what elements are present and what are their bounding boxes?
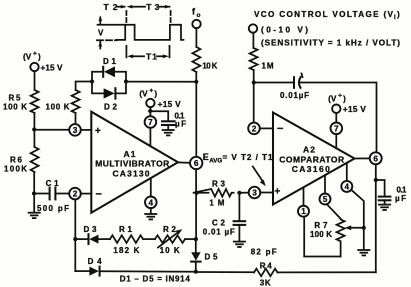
junction R5/R6 pin3 branch — [32, 127, 36, 131]
waveform V low-level reference dashes — [97, 39, 117, 41]
diode D2 — [104, 88, 116, 98]
wire D5 junction to R4 — [196, 271, 254, 273]
wire R6 to ground — [33, 172, 35, 212]
pin 6 A1 — [190, 157, 202, 169]
capacitor C1 — [50, 188, 56, 200]
dashed timing line left — [125, 11, 127, 24]
svg-text:100 K: 100 K — [310, 230, 332, 239]
wire R5 to R6 — [33, 113, 35, 147]
svg-text:−: − — [277, 123, 283, 135]
svg-text:): ) — [154, 90, 157, 99]
wire pin2 to A1 — [81, 193, 92, 195]
pin 4 A1 — [145, 197, 157, 209]
junction wiper rail — [362, 226, 366, 230]
pin 1 A2 — [298, 206, 309, 217]
svg-text:5: 5 — [323, 194, 328, 204]
wire pin4 to wiper rail — [351, 190, 364, 228]
svg-text:4: 4 — [344, 181, 349, 191]
ground left rail — [28, 213, 41, 218]
V amplitude top arrow — [99, 16, 103, 25]
terminal +15V A1 — [146, 99, 154, 107]
diode D4 — [89, 267, 99, 276]
svg-text:7: 7 — [148, 117, 153, 127]
ground A1 pin4 — [144, 214, 157, 219]
capacitor 0.1uF output — [379, 197, 391, 205]
pin 2 A1 — [69, 188, 81, 200]
wire pin6 A2 down right rail to bottom — [375, 164, 377, 272]
junction pin7 bypass — [148, 109, 152, 113]
wire terminal to pin7 A2 — [335, 113, 337, 123]
svg-text:= V T2 / T1: = V T2 / T1 — [223, 153, 273, 162]
wire pin5 A2 up to edge — [324, 176, 326, 194]
wire junction to bypass cap — [150, 111, 168, 120]
pin 4 A2 — [341, 181, 352, 192]
svg-text:10 K: 10 K — [160, 246, 180, 255]
wire 100K bottom to pin3 A1 — [75, 113, 77, 124]
resistor 1M — [250, 48, 258, 70]
svg-text:10 K: 10 K — [202, 62, 217, 71]
junction fo column / diode pair wire — [194, 80, 198, 84]
svg-text:D1 – D5 = IN914: D1 – D5 = IN914 — [120, 275, 191, 284]
svg-text:+: + — [33, 51, 37, 58]
svg-text:): ) — [397, 10, 400, 19]
waveform square-wave trace — [117, 25, 184, 40]
resistor R4 — [254, 269, 278, 277]
resistor R1 — [110, 235, 143, 243]
junction output 0.1uF branch — [374, 178, 378, 182]
pin 7 A2 — [331, 123, 343, 135]
wire R3 junction to pin3 A2 — [241, 192, 249, 194]
svg-text:+: + — [149, 88, 153, 95]
junction R3 C2 — [237, 191, 241, 195]
ground C2 — [233, 242, 246, 247]
wire pin4 to ground — [150, 208, 152, 214]
svg-text:1M: 1M — [262, 61, 274, 70]
svg-text:(0-10 V): (0-10 V) — [261, 26, 308, 35]
wire R1 to R2 — [143, 238, 155, 240]
wire A2 apex to pin6 — [355, 157, 370, 159]
junction D3 row — [73, 237, 77, 241]
svg-text:−: − — [96, 189, 102, 201]
svg-text:µF: µF — [175, 120, 186, 129]
label EAVG = V T2/T1 — [203, 152, 273, 165]
svg-text:V: V — [98, 29, 104, 38]
wire pin4 A2 up to edge — [346, 164, 348, 181]
diode D1 — [103, 66, 115, 77]
svg-text:+: + — [95, 126, 101, 137]
wire feedback cap to output rail — [300, 83, 377, 153]
wire terminal to pin7 A1 — [149, 107, 151, 116]
svg-text:CA3160: CA3160 — [292, 164, 330, 174]
T3 dimension arrows — [127, 5, 171, 9]
wire junction to feedback cap — [254, 82, 292, 84]
svg-text:CA3130: CA3130 — [113, 168, 150, 178]
potentiometer R2 — [155, 229, 185, 247]
wire junction to pin3 A1 — [34, 129, 69, 131]
junction D1 D2 right — [124, 79, 128, 83]
wire D3 to R1 — [99, 238, 111, 240]
terminal VCO control voltage input — [249, 24, 257, 32]
svg-text:7: 7 — [334, 123, 339, 133]
svg-text:6: 6 — [373, 153, 378, 163]
R7 wiper arrow — [345, 225, 364, 230]
pin 6 A2 — [370, 152, 382, 164]
svg-text:): ) — [38, 53, 41, 62]
resistor 100K second — [72, 90, 80, 113]
svg-text:2: 2 — [252, 123, 257, 133]
T2 dimension arrow — [118, 5, 127, 9]
svg-text:+15 V: +15 V — [343, 105, 367, 114]
pin 2 A2 — [248, 123, 260, 135]
ground output cap — [378, 205, 391, 210]
svg-text:182 K: 182 K — [113, 246, 139, 255]
svg-text:MULTIVIBRATOR: MULTIVIBRATOR — [95, 158, 169, 168]
junction R6/C1 — [32, 191, 36, 195]
svg-text:3: 3 — [73, 125, 78, 135]
capacitor 0.1uF A1 bypass — [162, 121, 175, 129]
svg-text:(SENSITIVITY = 1 kHz / VOLT): (SENSITIVITY = 1 kHz / VOLT) — [261, 39, 400, 48]
svg-text:T1: T1 — [146, 52, 157, 62]
svg-text:AVG: AVG — [209, 157, 222, 164]
svg-text:+15 V: +15 V — [158, 100, 182, 109]
arrow EAVG to pin3 A2 — [253, 167, 266, 187]
ground A1 bypass — [162, 130, 175, 135]
svg-text:(V: (V — [139, 90, 148, 99]
T1 bracket left extension — [125, 46, 127, 58]
wire 10K to A1 pin6 — [195, 72, 197, 157]
svg-text:VCO CONTROL VOLTAGE (V: VCO CONTROL VOLTAGE (V — [254, 10, 394, 19]
svg-text:A2: A2 — [303, 145, 315, 155]
wire pin2 A2 to triangle — [260, 127, 273, 129]
svg-text:100 K: 100 K — [3, 103, 27, 112]
svg-text:(V: (V — [328, 94, 337, 103]
terminal fo — [192, 20, 200, 28]
wire A1 apex to pin6 — [178, 161, 191, 163]
ground wiper — [357, 250, 370, 255]
dashed timing line right — [170, 11, 172, 24]
wire fo to 10K — [195, 28, 197, 47]
wire junction to output cap — [376, 180, 385, 196]
svg-text:(V: (V — [23, 53, 32, 62]
wire pin3 A2 to triangle — [260, 192, 273, 194]
svg-text:µF: µF — [395, 194, 406, 203]
resistor R7 — [337, 219, 345, 257]
capacitor C2 — [234, 221, 246, 241]
wire diode pair to fo column — [126, 81, 196, 83]
wire VCO terminal to 1M — [252, 33, 254, 48]
diode D5 — [191, 252, 200, 271]
T1 dimension arrows — [127, 54, 169, 58]
terminal +15V left — [30, 63, 38, 71]
svg-text:4: 4 — [148, 197, 153, 207]
svg-text:0.01 µF: 0.01 µF — [203, 228, 235, 237]
svg-text:): ) — [343, 94, 346, 103]
wire pin7 to A1 edge — [149, 128, 151, 146]
pin 5 A2 — [320, 194, 331, 205]
resistor 10K — [192, 47, 200, 72]
svg-text:COMPARATOR: COMPARATOR — [279, 154, 344, 164]
svg-text:3K: 3K — [260, 279, 271, 287]
capacitor 0.01uF feedback — [294, 74, 303, 88]
terminal +15V A2 — [332, 105, 340, 113]
svg-text:+: + — [338, 92, 342, 99]
svg-text:E: E — [203, 152, 209, 162]
wire terminal to R5 — [34, 71, 36, 90]
wire R2 to pin6 column — [185, 238, 196, 240]
svg-text:6: 6 — [194, 158, 199, 168]
junction D1 D2 left — [90, 79, 94, 83]
wire D4 to D5 junction — [100, 270, 196, 272]
svg-text:o: o — [197, 12, 201, 19]
junction R1 R2 row — [194, 237, 198, 241]
wire A1 edge to pin4 — [150, 178, 152, 196]
junction D5 bottom wire — [194, 270, 198, 274]
wire junction to D3 — [75, 238, 88, 240]
resistor R5 — [31, 90, 39, 113]
svg-text:1 M: 1 M — [209, 198, 224, 207]
junction 1M / feedback cap — [252, 80, 256, 84]
pin 7 A1 — [145, 116, 157, 128]
wire pin5 to R7 top — [327, 204, 341, 218]
wire pin1 down to R7 bottom — [304, 217, 340, 257]
svg-text:+15 V: +15 V — [41, 64, 64, 73]
wire wiper junction to ground — [363, 228, 365, 250]
wire 1M to A2 pin2 — [253, 70, 255, 123]
op-amp A1 triangle — [91, 112, 178, 213]
op-amp A2 triangle — [273, 113, 355, 205]
wire pin2 branch corner to D4 — [75, 270, 89, 272]
junction R3 branch — [195, 191, 199, 195]
wire pin6 A1 down to R1 R2 row — [195, 169, 197, 239]
pin 3 A1 — [69, 124, 81, 136]
svg-text:100 K: 100 K — [46, 103, 70, 112]
wire C1 to pin2 A1 — [55, 193, 69, 195]
resistor R3 — [193, 189, 234, 197]
wire junction to C1 — [34, 193, 48, 195]
resistor R6 — [31, 147, 39, 172]
svg-text:100K: 100K — [4, 164, 27, 173]
wire junction to C2 — [238, 193, 240, 221]
wire 100K top to D1 D2 left node — [76, 82, 92, 91]
wire pin2 A1 down left branch — [74, 199, 76, 271]
svg-text:0.01µF: 0.01µF — [280, 91, 309, 100]
wire pin7 A2 to triangle edge — [335, 134, 337, 148]
svg-text:1: 1 — [301, 206, 306, 216]
svg-text:82 pF: 82 pF — [251, 248, 277, 257]
wire pin1 A2 up to edge — [303, 188, 305, 206]
T1 bracket right extension — [169, 46, 171, 58]
svg-text:2: 2 — [73, 189, 78, 199]
diode D3 — [89, 234, 99, 244]
wire R4 to right rail — [278, 271, 376, 273]
waveform V high-level reference line — [98, 24, 126, 26]
svg-text:+: + — [275, 186, 281, 197]
wire pin3 to A1 — [81, 129, 92, 131]
diode pair loop frame — [92, 72, 126, 94]
V amplitude bottom arrow — [99, 41, 103, 49]
pin 3 A2 — [249, 187, 261, 199]
svg-text:3: 3 — [252, 188, 257, 198]
wire junction to D5 — [195, 239, 197, 252]
